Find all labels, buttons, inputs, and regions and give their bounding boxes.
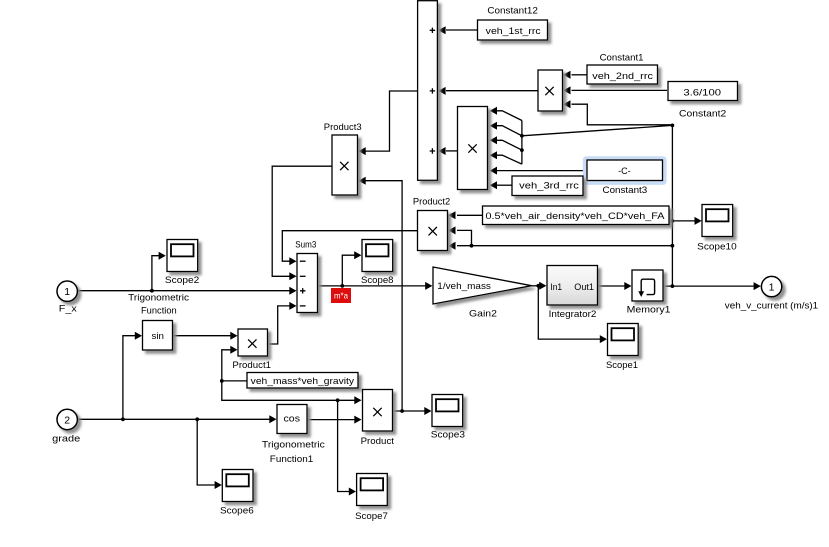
- svg-text:Constant2: Constant2: [679, 109, 726, 120]
- svg-text:Trigonometric: Trigonometric: [262, 440, 325, 451]
- input port 1 F_x: [57, 281, 77, 301]
- wire Constant3 to Product4 input 5: [497, 170, 587, 172]
- wire Product3 to Sum3 input 2: [272, 166, 332, 276]
- junction m*a: [340, 284, 344, 288]
- svg-text:1/veh_mass: 1/veh_mass: [437, 281, 491, 292]
- svg-text:Constant1: Constant1: [600, 53, 644, 64]
- product block Product2: [418, 211, 448, 251]
- junction at Memory1 output: [671, 284, 675, 288]
- svg-text:Function: Function: [141, 306, 177, 317]
- wire F_x to Sum3 plus input: [78, 290, 290, 292]
- constant Constant3 -C-: [587, 160, 663, 181]
- svg-text:Scope8: Scope8: [361, 275, 394, 286]
- wire Integrator2 to Memory1: [598, 285, 626, 287]
- junction on bus 2: [520, 148, 524, 152]
- wire Constant2 3.6/100 to Product(top) input 2: [572, 89, 668, 91]
- wire Product feedback up to Product3 input 2: [365, 181, 403, 411]
- product block Product3: [332, 135, 358, 195]
- constant Constant1 veh_2nd_rrc: [587, 65, 658, 84]
- junction feedback to Product2: [671, 244, 675, 248]
- constant veh_3rd_rrc: [512, 176, 583, 196]
- svg-text:Scope6: Scope6: [220, 506, 254, 517]
- junction on veh_mass*veh_gravity line: [220, 379, 224, 383]
- junction to Scope7: [336, 398, 340, 402]
- wire branch down to Scope7: [338, 400, 350, 491]
- wire feedback to Product2 input 3: [457, 245, 672, 247]
- wire cos to Product input 2: [307, 419, 356, 421]
- junction after Gain2: [536, 284, 540, 288]
- wire veh_1st_rrc to Sum input 1: [446, 29, 477, 31]
- squiggle wire bus to Product4 input 4: [497, 155, 522, 164]
- sum block Add (tall, 3 plus inputs): [418, 1, 438, 181]
- output port 1 veh_v_current: [761, 276, 781, 296]
- svg-text:1: 1: [769, 281, 775, 293]
- svg-text:Gain2: Gain2: [469, 309, 497, 320]
- scope Scope2: [167, 240, 198, 272]
- junction Product2 squared tap: [470, 244, 474, 248]
- feedback vertical line: [671, 125, 673, 286]
- svg-text:Scope1: Scope1: [606, 360, 638, 371]
- wire Product(top) to Sum input 2: [446, 90, 538, 92]
- svg-text:Constant12: Constant12: [487, 6, 538, 17]
- wire Sum3 output to Gain2 (m*a line): [318, 285, 427, 287]
- svg-text:sin: sin: [152, 331, 165, 342]
- velocity bus vertical: [521, 121, 523, 165]
- wire Product output to Scope3: [393, 410, 426, 412]
- svg-text:veh_v_current (m/s)1: veh_v_current (m/s)1: [725, 301, 818, 312]
- svg-text:m*a: m*a: [334, 291, 348, 301]
- constant Constant12 veh_1st_rrc: [478, 20, 548, 40]
- wire Memory1 to output port: [663, 285, 755, 287]
- wire Gain2 to Integrator2: [532, 285, 541, 287]
- trig block sin: [143, 321, 173, 351]
- wire veh_2nd_rrc to Product(top) input 1: [572, 74, 588, 76]
- wire Sum output to Product3 input 1: [365, 91, 418, 151]
- wire Product1 to Sum3 input 4: [268, 306, 291, 344]
- wire air density constant to Product2 input 1: [457, 214, 483, 216]
- sum block Sum3: [297, 254, 318, 313]
- wire down to Product input 1: [222, 381, 356, 400]
- wire grade to cos: [77, 418, 271, 420]
- svg-text:Product1: Product1: [232, 360, 271, 371]
- subsystem Integrator2: [547, 266, 598, 306]
- svg-text:veh_1st_rrc: veh_1st_rrc: [486, 26, 541, 37]
- svg-text:Sum3: Sum3: [295, 240, 316, 251]
- squiggle wire bus to Product4 input 1: [497, 111, 522, 121]
- product block (top, 3 inputs): [538, 70, 563, 111]
- wire branch up to sin: [123, 336, 136, 420]
- svg-text:1: 1: [64, 286, 70, 298]
- wire veh_mass*veh_gravity to junction: [222, 380, 247, 382]
- svg-text:Product: Product: [361, 436, 395, 447]
- gain block Gain2 1/veh_mass: [433, 267, 532, 304]
- squiggle wire bus to Product4 input 2: [497, 126, 522, 136]
- wire branch down to Scope6: [197, 419, 215, 485]
- wire Product2 to Sum3 input 1: [282, 231, 417, 262]
- junction on bus 1: [520, 134, 524, 138]
- scope Scope7: [357, 474, 388, 506]
- product block Product4 (6 inputs): [458, 107, 488, 190]
- wire up to Product1 input 2: [222, 350, 232, 381]
- scope Scope10: [702, 205, 733, 237]
- scope Scope8: [362, 240, 393, 272]
- junction on Product output: [400, 409, 404, 413]
- wire branch down to Scope1: [538, 286, 601, 339]
- wire branch to Scope2: [152, 256, 160, 291]
- scope Scope3: [432, 395, 463, 427]
- selection highlight of Constant3: [583, 156, 667, 185]
- svg-text:veh_2nd_rrc: veh_2nd_rrc: [592, 71, 653, 82]
- svg-text:Scope3: Scope3: [431, 430, 465, 441]
- arrowhead into Sum3 input 3: [289, 287, 296, 295]
- svg-text:Out1: Out1: [574, 282, 594, 293]
- svg-text:2: 2: [64, 414, 70, 426]
- diagonal wire feedback to velocity bus: [522, 125, 673, 135]
- svg-text:grade: grade: [52, 434, 80, 445]
- svg-text:Integrator2: Integrator2: [549, 309, 597, 320]
- svg-text:Scope7: Scope7: [355, 511, 388, 522]
- svg-text:-C-: -C-: [618, 166, 631, 177]
- svg-text:cos: cos: [284, 414, 301, 425]
- wire feedback to Product(top) input 3: [572, 104, 673, 125]
- wire tap up to Product2 input 2: [457, 230, 472, 245]
- junction feedback to Scope10: [671, 219, 675, 223]
- scope Scope1: [608, 324, 639, 356]
- constant 0.5*veh_air_density*veh_CD*veh_FA: [483, 206, 670, 225]
- wire sin to Product1 input 1: [173, 335, 232, 337]
- scope Scope6: [222, 470, 253, 502]
- junction grade-to-sin: [121, 417, 125, 421]
- trig block cos: [277, 405, 307, 434]
- svg-text:Memory1: Memory1: [627, 305, 671, 316]
- svg-text:0.5*veh_air_density*veh_CD*veh: 0.5*veh_air_density*veh_CD*veh_FA: [486, 211, 666, 222]
- wire Product4 to Sum input 3: [446, 150, 458, 152]
- wire branch up to Scope8: [342, 255, 355, 286]
- wire veh_3rd_rrc to Product4 input 6: [497, 184, 512, 186]
- svg-text:Product3: Product3: [324, 122, 362, 133]
- svg-text:Function1: Function1: [270, 454, 313, 465]
- svg-text:Scope10: Scope10: [697, 242, 737, 253]
- junction on F_x line: [150, 289, 154, 293]
- svg-text:Product2: Product2: [413, 197, 450, 208]
- squiggle wire bus to Product4 input 3: [497, 140, 522, 150]
- svg-text:Constant3: Constant3: [603, 185, 648, 196]
- svg-text:3.6/100: 3.6/100: [683, 87, 721, 98]
- product block Product1: [238, 329, 268, 356]
- constant Constant2 3.6/100: [668, 82, 738, 101]
- junction grade-to-Scope6: [195, 417, 199, 421]
- product block Product (2 inputs): [363, 390, 393, 432]
- junction feedback top: [671, 124, 675, 128]
- constant veh_mass*veh_gravity: [247, 373, 358, 389]
- svg-text:Scope2: Scope2: [165, 275, 199, 286]
- svg-text:Trigonometric: Trigonometric: [128, 293, 189, 304]
- svg-text:veh_3rd_rrc: veh_3rd_rrc: [519, 181, 579, 192]
- svg-text:veh_mass*veh_gravity: veh_mass*veh_gravity: [251, 376, 355, 387]
- svg-text:In1: In1: [550, 282, 562, 293]
- svg-text:F_x: F_x: [59, 304, 77, 315]
- signal label m*a: [331, 288, 351, 303]
- input port 2 grade: [57, 409, 77, 429]
- memory block Memory1: [632, 270, 663, 301]
- wire feedback to Scope10: [672, 220, 695, 222]
